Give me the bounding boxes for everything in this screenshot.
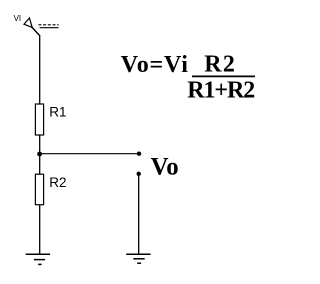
wire: node A to R2 top xyxy=(39,154,41,175)
wire: node A to output terminal xyxy=(40,153,139,155)
ground symbol (right): bottom bar xyxy=(137,262,141,264)
output terminal dot (top) xyxy=(137,152,141,156)
svg-text:R1+R2: R1+R2 xyxy=(187,78,254,104)
svg-text:R2: R2 xyxy=(204,52,236,78)
ground symbol (left, under R2): top bar xyxy=(26,253,50,255)
svg-text:Vo=Vi: Vo=Vi xyxy=(121,52,189,78)
ground symbol (right, output): top bar xyxy=(126,253,150,255)
wire: R1 bottom to node A xyxy=(39,135,41,154)
formula fraction bar xyxy=(192,75,255,77)
wire: Vi down to R1 top xyxy=(39,35,41,105)
node A junction dot xyxy=(37,152,42,157)
ground symbol (right): middle bar xyxy=(133,258,144,260)
input port symbol Vi: triangle xyxy=(24,18,32,27)
wire: output terminal down to ground xyxy=(138,176,140,254)
output terminal dot (bottom) xyxy=(137,172,141,176)
svg-text:VI: VI xyxy=(14,14,22,23)
input port dashed stub line xyxy=(38,24,58,26)
input port solid stub line xyxy=(40,27,59,29)
svg-text:Vo: Vo xyxy=(151,154,179,181)
svg-text:R2: R2 xyxy=(49,175,66,190)
svg-text:R1: R1 xyxy=(49,105,66,120)
ground symbol (left): middle bar xyxy=(34,259,45,261)
wire: diagonal lead from port triangle xyxy=(32,27,40,36)
resistor R2 (body) xyxy=(35,174,43,205)
ground symbol (left): bottom bar xyxy=(38,263,41,265)
resistor R1 (body) xyxy=(35,104,43,135)
wire: R2 bottom to ground xyxy=(39,205,41,255)
